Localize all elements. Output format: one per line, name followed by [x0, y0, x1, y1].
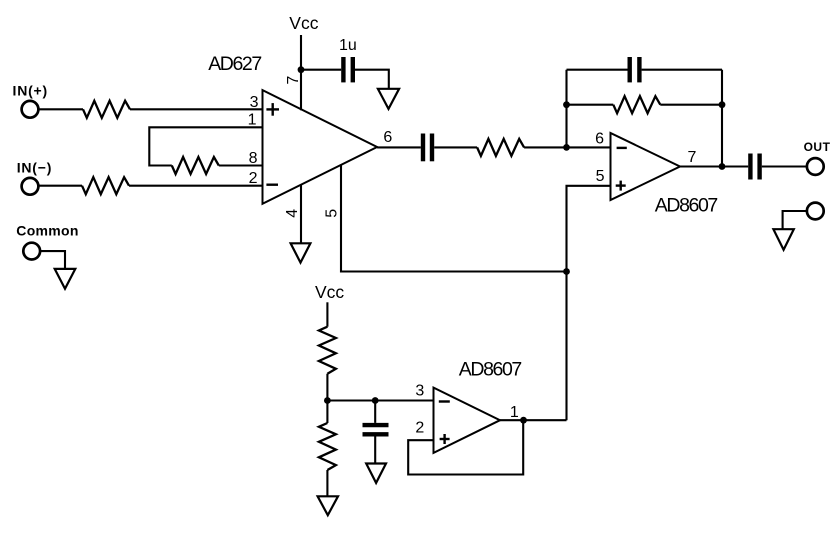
svg-text:5: 5	[323, 209, 340, 218]
svg-text:IN(+): IN(+)	[13, 82, 49, 98]
svg-text:1u: 1u	[339, 37, 357, 54]
svg-text:8: 8	[249, 150, 258, 167]
svg-text:AD627: AD627	[208, 53, 261, 75]
svg-text:IN(−): IN(−)	[17, 159, 53, 175]
svg-text:AD8607: AD8607	[655, 195, 718, 217]
svg-text:3: 3	[250, 94, 259, 111]
svg-text:OUT: OUT	[804, 140, 831, 154]
svg-text:4: 4	[284, 209, 301, 218]
svg-text:7: 7	[688, 149, 697, 166]
svg-text:6: 6	[595, 130, 604, 147]
svg-text:6: 6	[383, 129, 392, 146]
svg-text:Vcc: Vcc	[289, 13, 318, 33]
svg-text:5: 5	[596, 168, 605, 185]
svg-text:7: 7	[285, 76, 302, 85]
svg-text:2: 2	[415, 420, 424, 437]
svg-text:1: 1	[510, 404, 519, 421]
svg-text:AD8607: AD8607	[459, 359, 522, 381]
svg-text:Common: Common	[16, 223, 78, 239]
svg-text:Vcc: Vcc	[315, 282, 344, 302]
svg-text:2: 2	[249, 170, 258, 187]
svg-text:1: 1	[248, 112, 257, 129]
svg-text:3: 3	[415, 383, 424, 400]
